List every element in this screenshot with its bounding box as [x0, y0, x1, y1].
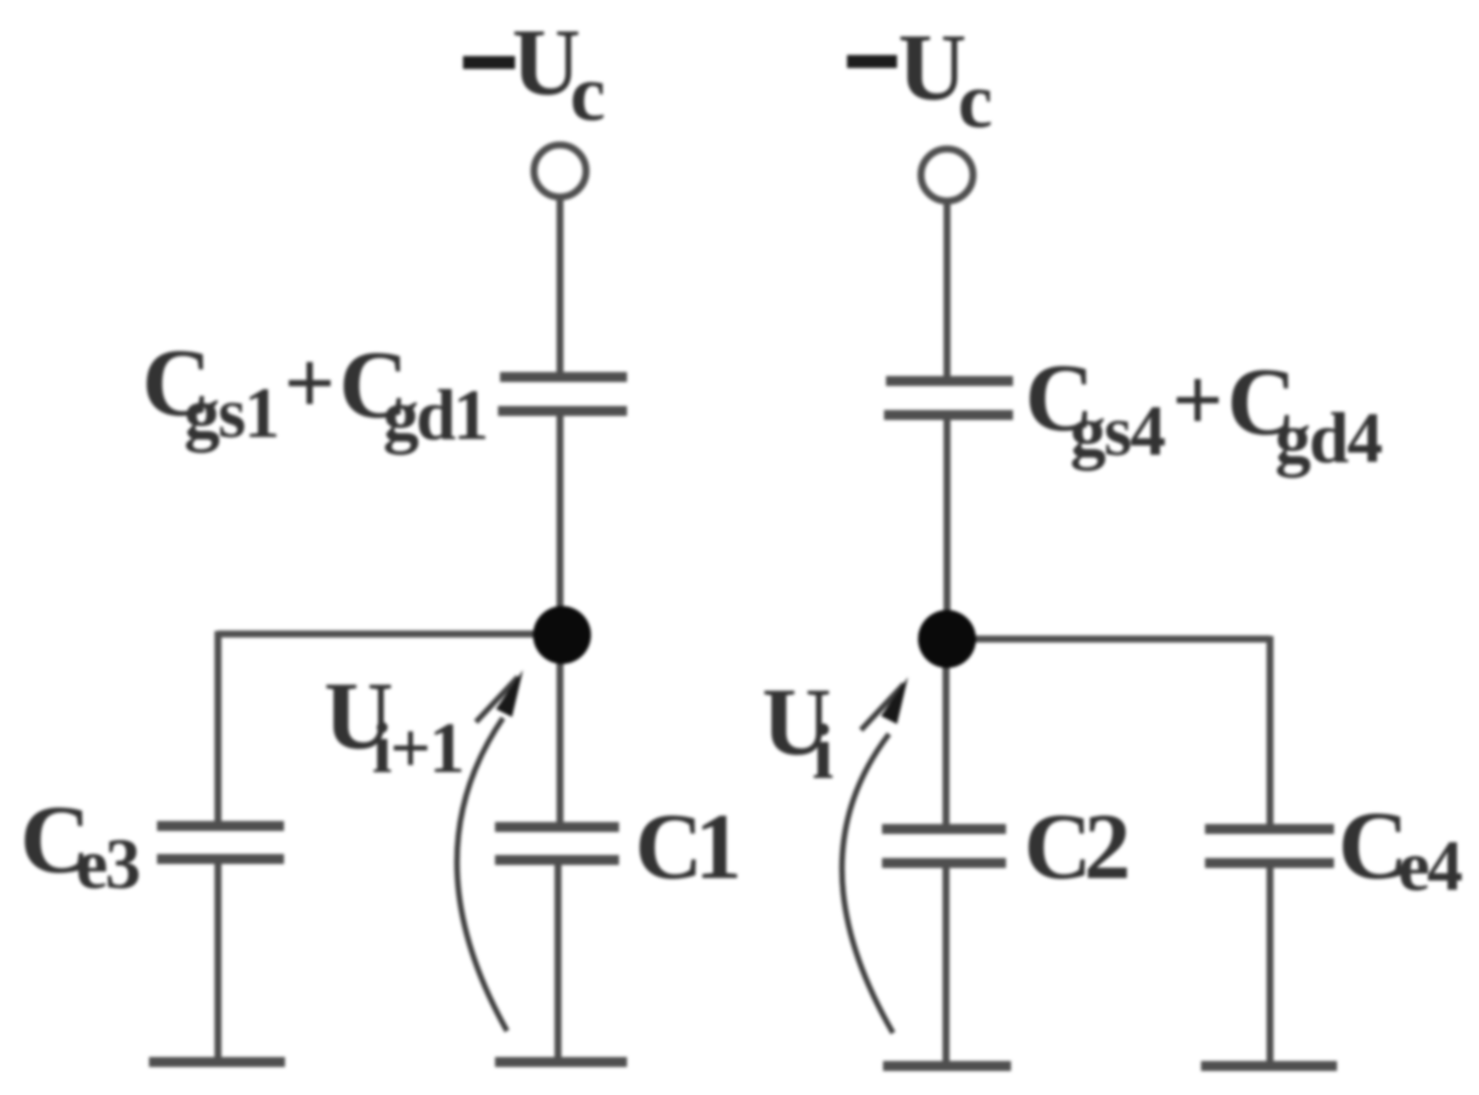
svg-text:c: c: [570, 50, 606, 138]
svg-text:gd4: gd4: [1275, 398, 1382, 478]
svg-text:U: U: [898, 14, 967, 120]
svg-text:C2: C2: [1024, 795, 1127, 899]
svg-text:i+1: i+1: [372, 708, 463, 788]
svg-text:gs1: gs1: [184, 373, 278, 453]
svg-text:+: +: [284, 334, 335, 433]
svg-text:gs4: gs4: [1070, 391, 1165, 471]
svg-text:gd1: gd1: [383, 375, 486, 455]
svg-text:e3: e3: [76, 824, 139, 904]
svg-text:i: i: [812, 708, 834, 795]
svg-text:C1: C1: [635, 795, 738, 899]
svg-text:+: +: [1172, 351, 1223, 450]
svg-text:e4: e4: [1398, 826, 1462, 906]
svg-text:c: c: [958, 57, 993, 144]
